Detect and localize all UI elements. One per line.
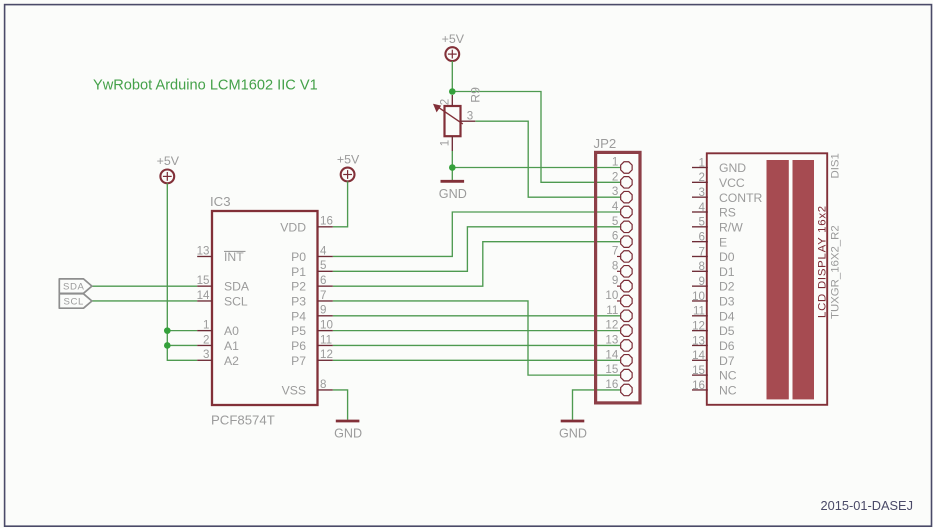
- svg-text:GND: GND: [439, 187, 467, 201]
- svg-text:10: 10: [320, 318, 333, 331]
- JP2 pad 11: [606, 304, 632, 322]
- svg-text:P3: P3: [291, 295, 306, 309]
- svg-text:12: 12: [605, 319, 618, 332]
- DIS1 pin 12 D5: [692, 319, 735, 338]
- svg-text:VDD: VDD: [280, 220, 306, 234]
- DIS1 pin 8 D1: [692, 260, 735, 279]
- svg-text:SCL: SCL: [224, 295, 248, 309]
- svg-text:A1: A1: [224, 339, 239, 353]
- svg-text:2: 2: [203, 333, 209, 346]
- svg-text:4: 4: [699, 201, 706, 214]
- svg-text:1: 1: [203, 318, 209, 331]
- IC3 pin 6 P2: [291, 274, 333, 294]
- junction node A1 junction: [164, 342, 171, 349]
- svg-text:SDA: SDA: [224, 280, 250, 294]
- ground symbol below R9: [439, 181, 467, 201]
- +5V supply symbol P+2 (above VDD): [337, 152, 360, 181]
- LCD display DIS1 outline: [707, 153, 827, 404]
- svg-text:D7: D7: [719, 354, 735, 368]
- svg-text:D1: D1: [719, 265, 735, 279]
- wire P2 to JP2 pad 6: [333, 242, 620, 286]
- svg-text:D2: D2: [719, 280, 735, 294]
- svg-text:P0: P0: [291, 250, 306, 264]
- wire P4 to JP2 pad 11: [333, 315, 620, 317]
- svg-text:2: 2: [699, 171, 705, 184]
- svg-text:+5V: +5V: [337, 152, 360, 166]
- svg-text:VSS: VSS: [282, 384, 306, 398]
- JP2 pad 6: [612, 230, 632, 248]
- DIS1 LCD glass bar left: [767, 160, 789, 399]
- svg-text:3: 3: [699, 186, 705, 199]
- svg-text:14: 14: [197, 289, 210, 302]
- R9 wiper arrow: [433, 104, 463, 124]
- svg-text:TUXGR_16X2_R2: TUXGR_16X2_R2: [830, 225, 842, 319]
- IC3 pin 7 P3: [291, 289, 333, 309]
- IC3 pin 8 VSS: [282, 378, 333, 398]
- wire branch to A0 pin: [167, 330, 197, 332]
- wire R9 wiper to JP2 pad 3: [475, 121, 620, 197]
- wire P3 to JP2 pad 15: [333, 301, 620, 375]
- IC3 pin 5 P1: [291, 259, 333, 279]
- wire SCL flag to IC3 SCL pin: [92, 300, 197, 302]
- JP2 pad 1: [612, 156, 632, 174]
- svg-text:GND: GND: [559, 427, 587, 441]
- svg-text:NC: NC: [719, 369, 737, 383]
- DIS1 pin 15 NC: [692, 364, 737, 383]
- svg-text:VCC: VCC: [719, 176, 745, 190]
- svg-text:11: 11: [693, 305, 705, 318]
- wire P6 to JP2 pad 13: [333, 344, 620, 346]
- svg-text:5: 5: [699, 216, 705, 229]
- svg-text:14: 14: [692, 349, 705, 362]
- svg-text:1: 1: [612, 156, 618, 169]
- IC3 pin 12 P7: [291, 348, 333, 368]
- svg-text:P4: P4: [291, 309, 306, 323]
- JP2 pad 2: [612, 170, 632, 188]
- svg-text:10: 10: [692, 290, 705, 303]
- DIS1 LCD glass bar right: [793, 160, 815, 399]
- svg-text:YwRobot Arduino LCM1602 IIC V1: YwRobot Arduino LCM1602 IIC V1: [93, 78, 318, 94]
- DIS1 pin 9 D2: [692, 275, 735, 294]
- JP2 pad 12: [605, 319, 632, 337]
- svg-text:P7: P7: [291, 354, 306, 368]
- wire P1 to JP2 pad 5: [333, 227, 620, 271]
- svg-text:15: 15: [197, 274, 210, 287]
- JP2 pad 16: [605, 378, 632, 396]
- svg-text:E: E: [719, 235, 727, 249]
- wire branch to A1 pin: [167, 344, 197, 346]
- JP2 pad 13: [605, 333, 632, 351]
- svg-text:4: 4: [320, 244, 327, 257]
- svg-text:RS: RS: [719, 206, 736, 220]
- svg-text:13: 13: [197, 244, 210, 257]
- svg-text:D0: D0: [719, 250, 735, 264]
- svg-text:GND: GND: [334, 427, 362, 441]
- svg-text:5: 5: [320, 259, 326, 272]
- svg-text:R9: R9: [469, 87, 483, 103]
- wire SDA flag to IC3 SDA pin: [92, 285, 197, 287]
- svg-text:13: 13: [605, 333, 618, 346]
- svg-text:7: 7: [612, 244, 618, 257]
- svg-text:+5V: +5V: [157, 154, 180, 168]
- wire VSS to ground: [333, 390, 348, 420]
- svg-text:R/W: R/W: [719, 220, 743, 234]
- IC3 pin 9 P4: [291, 304, 333, 324]
- svg-text:LCD DISPLAY 16x2: LCD DISPLAY 16x2: [817, 205, 829, 318]
- svg-text:3: 3: [612, 185, 618, 198]
- junction node R9 GND junction: [449, 164, 456, 171]
- svg-text:A0: A0: [224, 324, 239, 338]
- JP2 pad 8: [612, 259, 632, 277]
- svg-text:11: 11: [320, 333, 332, 346]
- DIS1 pin 14 D7: [692, 349, 735, 368]
- ground symbol below IC3 VSS: [334, 421, 362, 441]
- svg-text:16: 16: [320, 215, 333, 228]
- DIS1 pin 3 CONTR: [692, 186, 763, 205]
- svg-text:6: 6: [699, 230, 705, 243]
- JP2 pad 14: [605, 348, 632, 366]
- IC3 pin 15 SDA: [197, 274, 250, 294]
- svg-text:1: 1: [438, 140, 451, 146]
- IC3 pin 2 A1: [197, 333, 239, 353]
- svg-text:JP2: JP2: [594, 136, 617, 151]
- svg-text:D6: D6: [719, 339, 735, 353]
- DIS1 pin 6 E: [692, 230, 727, 249]
- wire +5V P+1 down to A2 pin: [167, 183, 197, 360]
- svg-text:9: 9: [320, 304, 326, 317]
- svg-text:11: 11: [606, 304, 618, 317]
- net label flag SDA: [59, 279, 92, 293]
- svg-text:D4: D4: [719, 309, 735, 323]
- wire GND net to JP2 pad 1: [452, 167, 620, 169]
- junction node R9 pin2 junction: [449, 88, 456, 95]
- svg-text:2: 2: [612, 170, 618, 183]
- svg-text:9: 9: [612, 274, 618, 287]
- svg-text:NC: NC: [719, 384, 737, 398]
- svg-text:16: 16: [605, 378, 618, 391]
- svg-text:P1: P1: [291, 265, 306, 279]
- wire R9 pin 1 to ground/junction: [451, 151, 453, 180]
- wire +5V P+2 to VDD pin: [333, 181, 348, 226]
- DIS1 pin 11 D4: [692, 305, 735, 324]
- DIS1 pin 5 R/W: [692, 216, 743, 235]
- IC3 pin 14 SCL: [197, 289, 248, 309]
- svg-text:1: 1: [699, 156, 705, 169]
- IC3 pin 11 P6: [291, 333, 333, 353]
- trimmer resistor R9 body: [445, 95, 476, 151]
- net label flag SCL: [59, 294, 92, 308]
- svg-text:P5: P5: [291, 324, 306, 338]
- svg-text:PCF8574T: PCF8574T: [211, 413, 275, 428]
- svg-text:12: 12: [320, 348, 333, 361]
- DIS1 pin 13 D6: [692, 334, 735, 353]
- +5V supply symbol P+3 (above R9): [442, 32, 465, 61]
- svg-text:SCL: SCL: [64, 296, 85, 307]
- svg-text:6: 6: [320, 274, 326, 287]
- IC IC3 PCF8574T body: [212, 211, 318, 405]
- DIS1 pin 2 VCC: [692, 171, 745, 190]
- svg-text:A2: A2: [224, 354, 239, 368]
- junction node A0 junction: [164, 327, 171, 334]
- svg-text:CONTR: CONTR: [719, 191, 763, 205]
- wire P7 to JP2 pad 14: [333, 359, 620, 361]
- svg-text:P2: P2: [291, 280, 306, 294]
- svg-text:15: 15: [605, 363, 618, 376]
- DIS1 pin 1 GND: [692, 156, 746, 175]
- JP2 pad 3: [612, 185, 632, 203]
- svg-text:DIS1: DIS1: [830, 153, 842, 178]
- connector JP2 outline: [596, 152, 640, 403]
- svg-text:7: 7: [699, 245, 705, 258]
- IC3 pin 3 A2: [197, 348, 239, 368]
- svg-text:IC3: IC3: [210, 194, 231, 209]
- wire +5V P+3 down to R9 pin 2: [451, 61, 453, 92]
- JP2 pad 10: [605, 289, 632, 307]
- ground symbol below JP2: [559, 421, 587, 441]
- svg-text:D5: D5: [719, 324, 735, 338]
- svg-text:8: 8: [320, 378, 326, 391]
- JP2 pad 9: [612, 274, 632, 292]
- svg-text:INT: INT: [224, 250, 244, 264]
- JP2 pad 15: [605, 363, 632, 381]
- IC3 pin 16 VDD: [280, 215, 333, 235]
- DIS1 pin 10 D3: [692, 290, 735, 309]
- svg-text:14: 14: [605, 348, 618, 361]
- +5V supply symbol P+1 (left): [157, 154, 180, 183]
- DIS1 pin 16 NC: [692, 379, 737, 398]
- wire P5 to JP2 pad 12: [333, 330, 620, 332]
- JP2 pad 7: [612, 244, 632, 262]
- wire P0 to JP2 pad 4: [333, 212, 620, 256]
- svg-text:12: 12: [692, 319, 705, 332]
- svg-text:10: 10: [605, 289, 618, 302]
- svg-text:7: 7: [320, 289, 326, 302]
- IC3 pin 10 P5: [291, 318, 333, 338]
- svg-text:16: 16: [692, 379, 705, 392]
- wire +5V to JP2 pad 2: [452, 92, 620, 183]
- IC3 pin 4 P0: [291, 244, 333, 264]
- svg-text:5: 5: [612, 215, 618, 228]
- svg-text:8: 8: [612, 259, 618, 272]
- svg-text:4: 4: [612, 200, 619, 213]
- wire JP2 pad 16 to ground: [573, 390, 621, 420]
- svg-text:6: 6: [612, 230, 618, 243]
- svg-text:15: 15: [692, 364, 705, 377]
- svg-text:2: 2: [438, 99, 451, 105]
- IC3 pin 13 INT: [197, 244, 245, 264]
- svg-text:SDA: SDA: [63, 282, 85, 293]
- svg-text:P6: P6: [291, 339, 306, 353]
- IC3 pin 1 A0: [197, 318, 239, 338]
- DIS1 pin 7 D0: [692, 245, 735, 264]
- svg-text:3: 3: [467, 110, 473, 123]
- svg-text:8: 8: [699, 260, 705, 273]
- svg-text:D3: D3: [719, 295, 735, 309]
- svg-text:2015-01-DASEJ: 2015-01-DASEJ: [821, 498, 913, 513]
- svg-text:9: 9: [699, 275, 705, 288]
- JP2 pad 5: [612, 215, 632, 233]
- svg-text:GND: GND: [719, 161, 746, 175]
- svg-text:13: 13: [692, 334, 705, 347]
- JP2 pad 4: [612, 200, 632, 218]
- svg-text:3: 3: [203, 348, 209, 361]
- DIS1 pin 4 RS: [692, 201, 736, 220]
- svg-text:+5V: +5V: [442, 32, 465, 46]
